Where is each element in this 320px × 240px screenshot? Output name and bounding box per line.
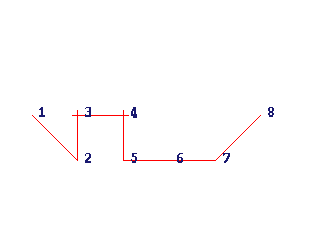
node label 6 bbox=[177, 153, 183, 163]
wire: diagonal segment from point 7 to point 8 bbox=[216, 115, 261, 160]
wire: vertical segment from point 4 down to point 5 bbox=[123, 115, 124, 161]
wire: diagonal segment from point 1 to point 2 bbox=[32, 115, 78, 161]
node label 5 bbox=[131, 153, 137, 163]
node marker: cross at point 4 bbox=[118, 110, 129, 121]
node label 4 bbox=[131, 107, 137, 118]
node label 2 bbox=[85, 153, 91, 163]
wire: horizontal segment from point 5 through point 6 to point 7 bbox=[123, 160, 216, 161]
node marker: cross at point 3 bbox=[72, 110, 83, 121]
wire: horizontal segment from point 3 to point 4 bbox=[77, 115, 124, 116]
node label 3 bbox=[85, 107, 91, 117]
node label 8 bbox=[268, 107, 274, 117]
node label 1 bbox=[39, 107, 45, 117]
wire: vertical segment from point 2 up to point 3 bbox=[77, 115, 78, 161]
node label 7 bbox=[223, 153, 230, 163]
